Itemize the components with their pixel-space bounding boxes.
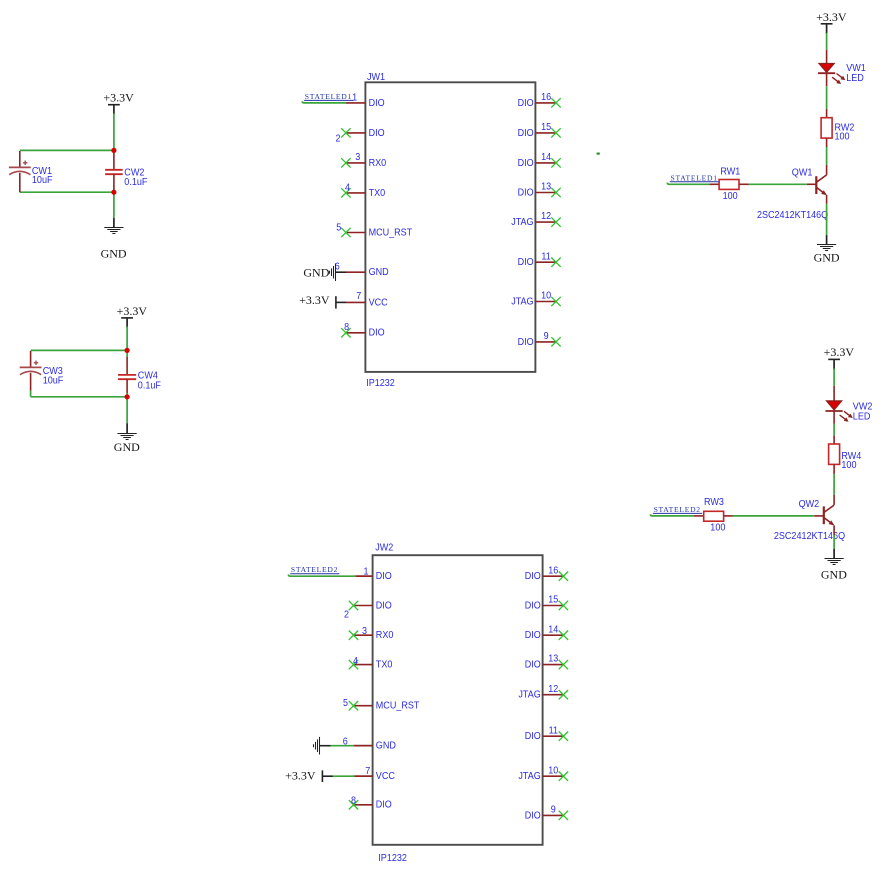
svg-text:2SC2412KT146Q: 2SC2412KT146Q <box>757 210 828 221</box>
svg-text:DIO: DIO <box>525 660 541 671</box>
svg-text:13: 13 <box>541 182 551 193</box>
svg-text:16: 16 <box>541 92 551 103</box>
svg-text:RW1: RW1 <box>720 166 740 177</box>
svg-text:15: 15 <box>541 122 551 133</box>
svg-text:STATELED2: STATELED2 <box>291 565 338 574</box>
svg-text:2: 2 <box>344 609 349 620</box>
svg-text:VCC: VCC <box>376 771 396 782</box>
svg-text:+3.3V: +3.3V <box>285 769 316 783</box>
svg-text:DIO: DIO <box>518 98 534 109</box>
svg-text:RW3: RW3 <box>704 497 724 508</box>
svg-text:0.1uF: 0.1uF <box>124 177 147 188</box>
svg-text:GND: GND <box>814 250 840 264</box>
svg-text:DIO: DIO <box>376 571 392 582</box>
svg-text:JTAG: JTAG <box>518 771 540 782</box>
svg-text:DIO: DIO <box>525 810 541 821</box>
svg-text:RX0: RX0 <box>369 158 387 169</box>
svg-text:11: 11 <box>541 251 551 262</box>
svg-text:+3.3V: +3.3V <box>816 10 847 24</box>
svg-text:STATELED1: STATELED1 <box>305 92 352 101</box>
svg-text:3: 3 <box>362 626 367 637</box>
svg-text:DIO: DIO <box>518 257 534 268</box>
svg-text:5: 5 <box>343 698 348 709</box>
svg-text:5: 5 <box>336 222 341 233</box>
svg-text:DIO: DIO <box>525 731 541 742</box>
svg-text:100: 100 <box>710 522 725 533</box>
svg-text:0.1uF: 0.1uF <box>138 380 161 391</box>
svg-text:1: 1 <box>352 92 357 103</box>
svg-text:9: 9 <box>544 331 549 342</box>
svg-text:JTAG: JTAG <box>511 296 533 307</box>
svg-text:DIO: DIO <box>525 571 541 582</box>
svg-text:DIO: DIO <box>518 187 534 198</box>
svg-text:+3.3V: +3.3V <box>824 345 855 359</box>
svg-text:DIO: DIO <box>369 98 385 109</box>
svg-text:+3.3V: +3.3V <box>117 304 148 318</box>
svg-text:100: 100 <box>835 132 850 143</box>
svg-text:DIO: DIO <box>525 630 541 641</box>
svg-text:16: 16 <box>548 565 558 576</box>
svg-text:QW2: QW2 <box>799 499 820 510</box>
svg-text:4: 4 <box>353 656 358 667</box>
svg-text:IP1232: IP1232 <box>366 378 395 389</box>
svg-text:100: 100 <box>723 191 738 202</box>
svg-text:DIO: DIO <box>518 128 534 139</box>
svg-text:JW2: JW2 <box>375 543 393 554</box>
svg-text:14: 14 <box>548 624 558 635</box>
svg-text:13: 13 <box>548 654 558 665</box>
svg-text:IP1232: IP1232 <box>378 853 407 864</box>
svg-text:JW1: JW1 <box>367 72 385 83</box>
svg-text:DIO: DIO <box>376 800 392 811</box>
svg-text:DIO: DIO <box>376 600 392 611</box>
svg-text:8: 8 <box>344 322 349 333</box>
svg-text:GND: GND <box>101 246 127 260</box>
svg-text:VCC: VCC <box>369 297 389 308</box>
svg-text:TX0: TX0 <box>376 660 393 671</box>
svg-text:10: 10 <box>548 765 558 776</box>
svg-text:DIO: DIO <box>518 337 534 348</box>
svg-text:4: 4 <box>345 183 350 194</box>
svg-text:100: 100 <box>841 460 856 471</box>
svg-text:GND: GND <box>369 267 389 278</box>
svg-text:GND: GND <box>821 568 847 582</box>
svg-text:JTAG: JTAG <box>518 690 540 701</box>
svg-text:10uF: 10uF <box>43 375 64 386</box>
svg-text:JTAG: JTAG <box>511 217 533 228</box>
svg-text:DIO: DIO <box>525 600 541 611</box>
svg-text:8: 8 <box>351 796 356 807</box>
svg-text:QW1: QW1 <box>792 167 813 178</box>
svg-text:2: 2 <box>336 133 341 144</box>
svg-text:GND: GND <box>303 266 329 280</box>
svg-text:+3.3V: +3.3V <box>299 293 330 307</box>
svg-text:LED: LED <box>846 73 864 84</box>
svg-text:10: 10 <box>541 291 551 302</box>
svg-text:3: 3 <box>355 152 360 163</box>
svg-text:MCU_RST: MCU_RST <box>369 227 413 238</box>
svg-text:MCU_RST: MCU_RST <box>376 701 420 712</box>
svg-text:11: 11 <box>549 725 559 736</box>
svg-text:GND: GND <box>376 741 396 752</box>
svg-text:RX0: RX0 <box>376 630 394 641</box>
svg-text:7: 7 <box>365 766 370 777</box>
svg-text:12: 12 <box>541 211 551 222</box>
svg-text:DIO: DIO <box>369 128 385 139</box>
svg-text:STATELED2: STATELED2 <box>654 505 701 514</box>
svg-text:12: 12 <box>548 684 558 695</box>
svg-text:LED: LED <box>853 412 871 423</box>
svg-text:10uF: 10uF <box>32 175 53 186</box>
svg-text:GND: GND <box>114 440 140 454</box>
svg-text:14: 14 <box>541 152 551 163</box>
svg-text:7: 7 <box>356 291 361 302</box>
svg-text:DIO: DIO <box>369 328 385 339</box>
svg-text:TX0: TX0 <box>369 188 386 199</box>
svg-text:9: 9 <box>551 805 556 816</box>
svg-text:15: 15 <box>548 595 558 606</box>
svg-text:STATELED1: STATELED1 <box>671 173 718 182</box>
svg-text:+3.3V: +3.3V <box>103 90 134 104</box>
svg-text:DIO: DIO <box>518 158 534 169</box>
